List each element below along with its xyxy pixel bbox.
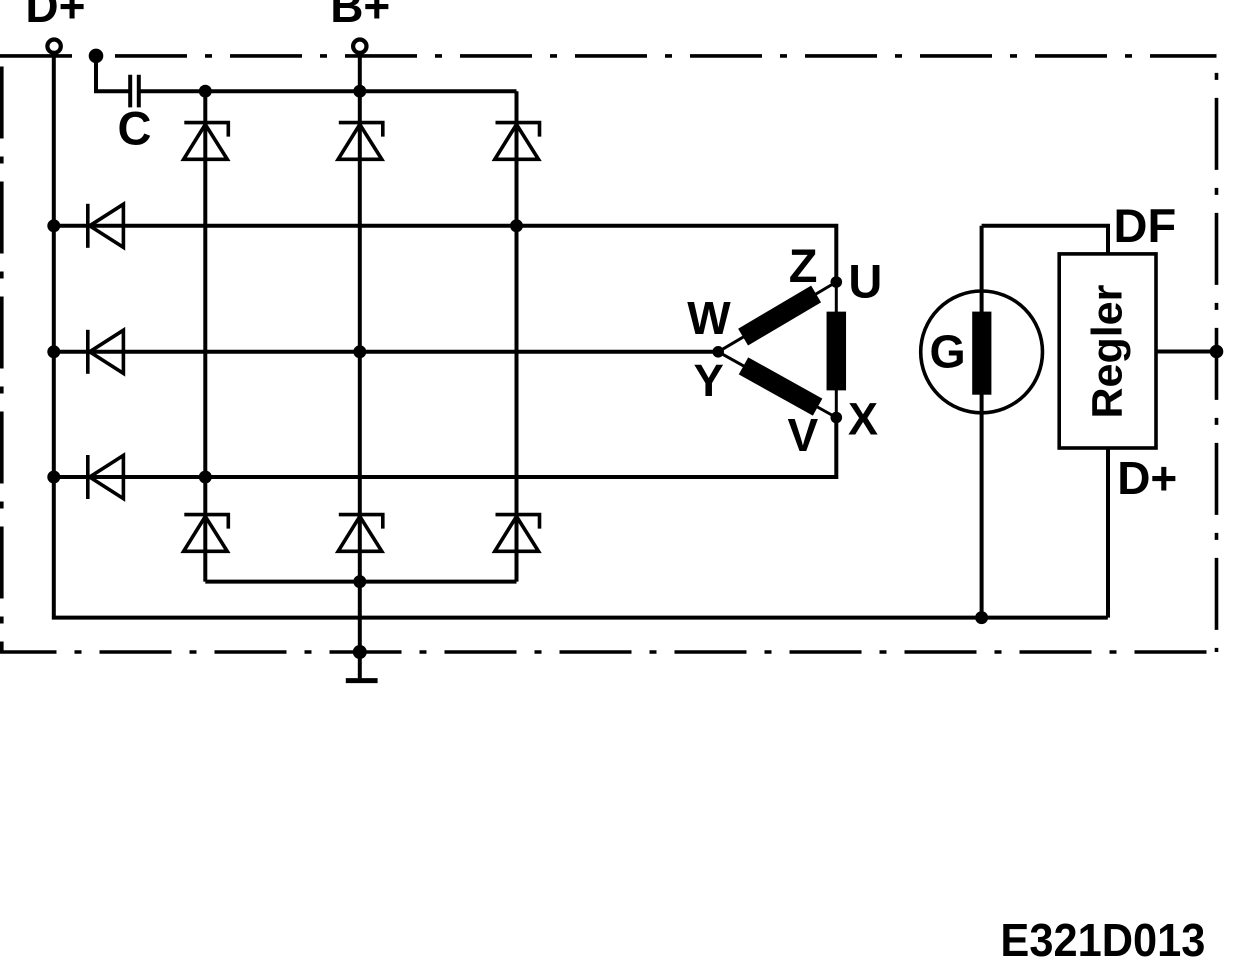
svg-text:W: W bbox=[687, 292, 731, 344]
winding W-X bar bbox=[744, 366, 818, 407]
junction node row2 left bbox=[47, 345, 60, 358]
diode D8 left row2 bbox=[88, 330, 124, 374]
wire phase row 1 to U bbox=[54, 226, 837, 282]
terminal D+ circle bbox=[47, 40, 60, 53]
diode D1 top column1 bbox=[184, 123, 229, 160]
svg-text:B+: B+ bbox=[330, 0, 390, 32]
diode D6 bottom column3 bbox=[495, 515, 540, 552]
wire exciter rail bbox=[139, 89, 517, 93]
frame top border (dash-dot) bbox=[0, 54, 1217, 58]
svg-text:Z: Z bbox=[789, 239, 818, 292]
stator delta thin lines bbox=[718, 282, 836, 418]
svg-text:U: U bbox=[848, 255, 882, 308]
wire column 2 bbox=[358, 91, 362, 652]
junction node ground/border bbox=[353, 645, 367, 659]
diode D7 left row1 bbox=[88, 204, 124, 248]
frame left border (dash-dot) bbox=[0, 56, 4, 652]
capacitor C plates bbox=[130, 75, 139, 108]
svg-text:DF: DF bbox=[1114, 199, 1177, 252]
junction node row2/col2 bbox=[353, 345, 366, 358]
junction node row1/col3 bbox=[510, 219, 523, 232]
svg-text:D+: D+ bbox=[1117, 452, 1177, 504]
wire bottom rail bbox=[205, 580, 516, 584]
junction node rail/col2 bbox=[353, 85, 366, 98]
junction node rail/col1 bbox=[199, 85, 212, 98]
wire phase row 3 to X bbox=[54, 418, 837, 478]
svg-text:D+: D+ bbox=[25, 0, 85, 32]
diode D5 bottom column2 bbox=[338, 515, 383, 552]
node U bbox=[831, 276, 843, 288]
junction node row3 left bbox=[47, 471, 60, 484]
generator brush bar bbox=[972, 312, 991, 395]
regler box bbox=[1059, 254, 1156, 448]
svg-text:V: V bbox=[788, 409, 819, 461]
terminal B+ circle bbox=[353, 40, 366, 53]
junction node G/long wire bbox=[975, 611, 988, 624]
frame bottom border (dash-dot) bbox=[0, 650, 1217, 654]
junction node bottom rail/col2 bbox=[353, 575, 366, 588]
wire regler output to frame bbox=[1156, 350, 1217, 354]
wire column 3 bbox=[515, 91, 519, 581]
wire B+ drop bbox=[358, 52, 362, 91]
svg-text:G: G bbox=[930, 326, 966, 378]
wire D+ left vertical bus and bottom long wire bbox=[54, 52, 1108, 618]
diode D9 left row3 bbox=[88, 455, 124, 499]
ground bar bbox=[346, 678, 378, 683]
wire G to DF corner bbox=[982, 226, 1108, 255]
diode D3 top column3 bbox=[495, 123, 540, 160]
winding W-U bar bbox=[743, 294, 816, 337]
diode D2 top column2 bbox=[338, 123, 383, 160]
junction node: border capacitor tap bbox=[89, 49, 104, 64]
generator G circle bbox=[921, 291, 1043, 413]
svg-text:X: X bbox=[848, 393, 878, 444]
wire G vertical bbox=[980, 226, 984, 618]
junction node row1 left bbox=[47, 219, 60, 232]
svg-text:C: C bbox=[118, 101, 152, 154]
wire regler D+ stub bbox=[1106, 446, 1110, 618]
node X bbox=[831, 412, 843, 424]
node W bbox=[712, 346, 724, 358]
frame right border (dash-dot) bbox=[1215, 56, 1219, 652]
wire column 1 bbox=[203, 91, 207, 581]
svg-text:Y: Y bbox=[694, 355, 724, 406]
junction node regler/frame bbox=[1210, 345, 1224, 359]
wire phase row 2 to W bbox=[54, 350, 718, 354]
svg-text:Regler: Regler bbox=[1084, 284, 1132, 418]
svg-text:E321D013: E321D013 bbox=[1000, 914, 1205, 966]
ground stem bbox=[358, 652, 362, 678]
diode D4 bottom column1 bbox=[184, 515, 229, 552]
junction node row3/col1 bbox=[199, 471, 212, 484]
wire capacitor tap from top border bbox=[96, 57, 130, 91]
winding U-X bar bbox=[827, 312, 847, 391]
